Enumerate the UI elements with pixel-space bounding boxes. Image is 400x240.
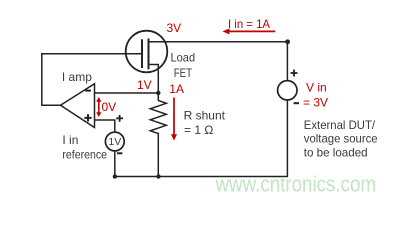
svg-text:= 3V: = 3V [303,96,328,110]
svg-text:reference: reference [62,147,107,161]
V in minus sign [294,102,299,104]
svg-text:1V: 1V [137,78,152,92]
wire op-amp output to FET gate (left loop) [42,54,142,106]
svg-text:voltage source: voltage source [304,132,378,146]
wire non-inverting input to reference source [95,120,115,132]
wire FET source lead down to shunt node [149,65,159,93]
svg-text:R shunt: R shunt [184,109,226,123]
wire reference source to bottom rail [114,151,116,177]
svg-text:External DUT/: External DUT/ [304,118,376,132]
node 3V label [167,21,182,35]
resistor R shunt [150,93,166,177]
junction shunt top node [156,91,160,95]
current arrow 1A through shunt [169,82,184,141]
svg-text:I amp: I amp [62,70,92,84]
op-amp minus input sign [85,90,91,92]
svg-text:0V: 0V [102,100,117,114]
node 1V label (shunt top) [137,78,152,92]
V in plus sign [291,70,298,77]
junction shunt bottom node [156,174,160,178]
value label I amp [62,70,92,84]
reference source plus sign [116,115,123,122]
value label External DUT [304,118,378,160]
value label R shunt = 1 ohm [184,109,226,138]
value label Load FET [171,50,196,80]
wire inverting input to shunt node [95,92,159,94]
junction reference bottom node [113,174,117,178]
svg-text:to be loaded: to be loaded [304,145,368,159]
svg-text:3V: 3V [167,21,182,35]
svg-text:FET: FET [174,66,193,80]
value label 1V inside reference [108,136,121,148]
transistor Load FET body circle [126,31,168,73]
source I in reference circle [105,132,124,151]
source V in circle [278,81,297,100]
reference source minus sign [117,152,122,154]
svg-text:1A: 1A [169,82,184,96]
svg-text:= 1 Ω: = 1 Ω [184,123,213,137]
wire V source down to bottom rail [115,100,288,177]
op-amp I amp triangle [61,84,95,128]
value label I in reference [62,133,107,161]
op-amp plus input sign [84,114,91,121]
svg-text:I in: I in [62,133,78,147]
svg-text:1V: 1V [108,136,121,148]
voltage arrow 0V across inputs [96,97,116,117]
wire top-right down to V source [286,42,288,81]
svg-text:I in = 1A: I in = 1A [228,17,270,31]
current arrow I in = 1A [223,17,276,35]
svg-text:Load: Load [171,50,196,64]
transistor Load FET channel bar [148,39,150,70]
wire FET drain to top rail [149,41,288,43]
node V in = 3V label [303,81,328,110]
svg-text:www.cntronics.com: www.cntronics.com [215,171,376,196]
junction top-right node [285,39,290,44]
svg-text:V in: V in [306,81,327,95]
transistor Load FET gate bar [141,39,143,68]
watermark [215,171,376,196]
